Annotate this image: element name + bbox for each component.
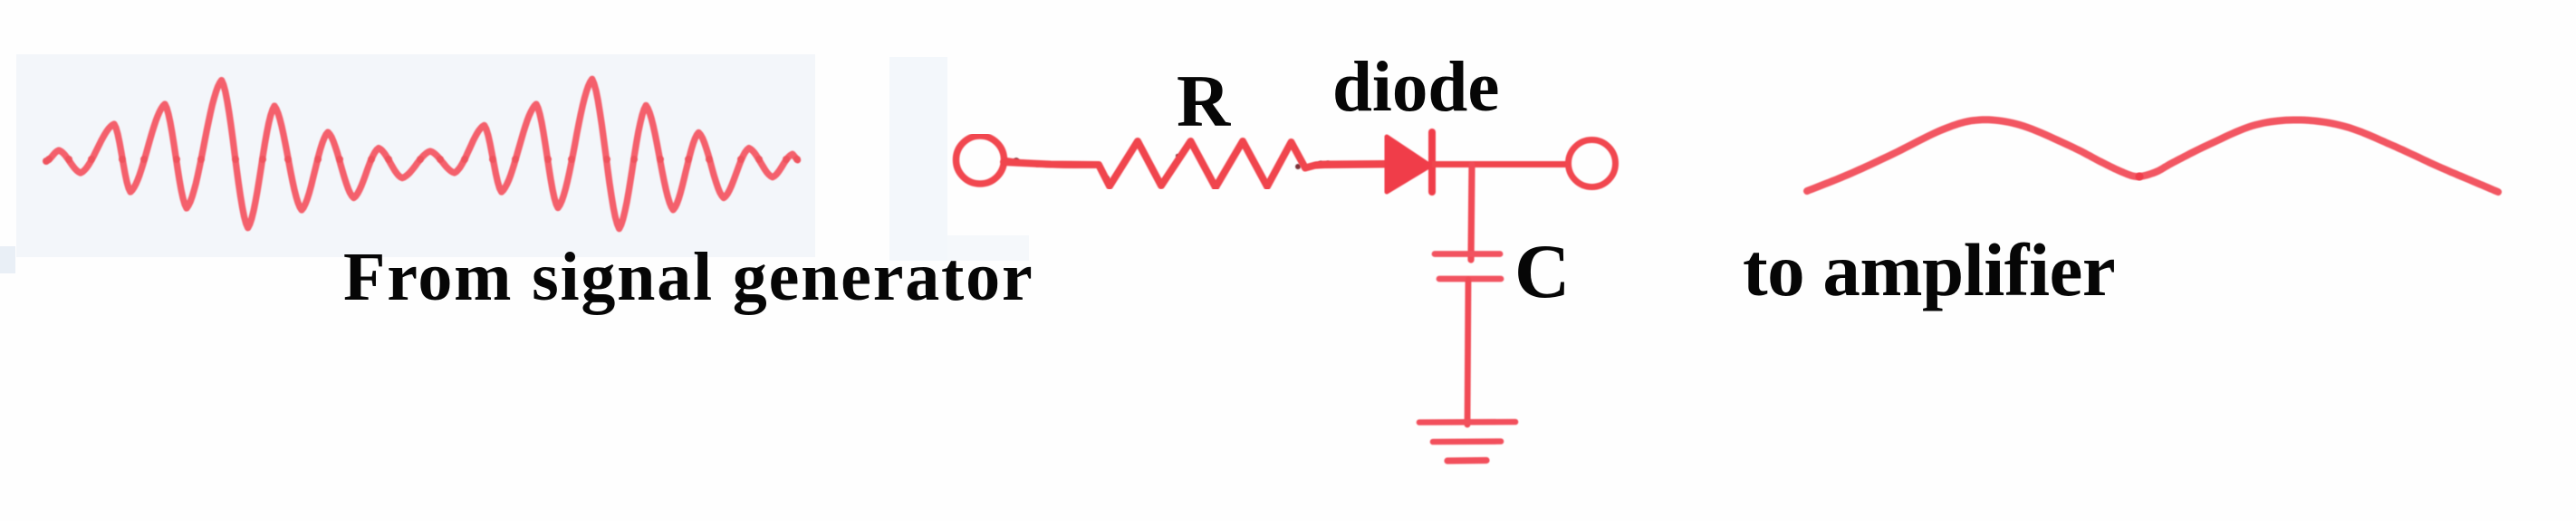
- ground and output waveform group: [1419, 120, 2498, 461]
- ground line 2: [1433, 438, 1501, 445]
- scan tint patch: [947, 235, 1029, 261]
- pen overlap specks: [1014, 142, 1331, 181]
- wire: capacitor to ground: [1467, 280, 1468, 425]
- input terminal: [956, 136, 1004, 184]
- svg-text:diode: diode: [1332, 48, 1499, 127]
- scan tint block behind input waveform: [16, 54, 815, 257]
- diode D1 triangle: [1387, 137, 1430, 192]
- svg-text:From signal generator: From signal generator: [343, 239, 1033, 315]
- diode and capacitor group: [1315, 132, 1616, 279]
- diode D1 cathode bar: [1428, 132, 1436, 192]
- input AM waveform: [43, 79, 1330, 228]
- svg-text:C: C: [1514, 229, 1570, 314]
- scan tint strip: [889, 57, 947, 261]
- output terminal: [1569, 140, 1616, 187]
- wire: diode to output terminal: [1432, 161, 1570, 167]
- ground line 3: [1447, 457, 1486, 464]
- resistor R: [1004, 141, 1387, 187]
- capacitor C bottom plate: [1439, 276, 1501, 282]
- capacitor C top plate: [1435, 251, 1500, 257]
- pen blob at envelope valley: [2136, 173, 2144, 181]
- waveform pen dots: [43, 156, 801, 165]
- input terminal and resistor group: [956, 136, 1388, 187]
- scan tint corner patch: [0, 246, 15, 273]
- svg-text:R: R: [1177, 60, 1231, 142]
- ground line 1: [1419, 419, 1515, 426]
- wire: junction down to capacitor: [1471, 165, 1472, 260]
- wire: terminal to resistor: [1004, 160, 1099, 165]
- output envelope waveform: [1807, 120, 2498, 192]
- svg-text:to amplifier: to amplifier: [1743, 228, 2115, 311]
- diode D1 anode wire: [1315, 165, 1392, 166]
